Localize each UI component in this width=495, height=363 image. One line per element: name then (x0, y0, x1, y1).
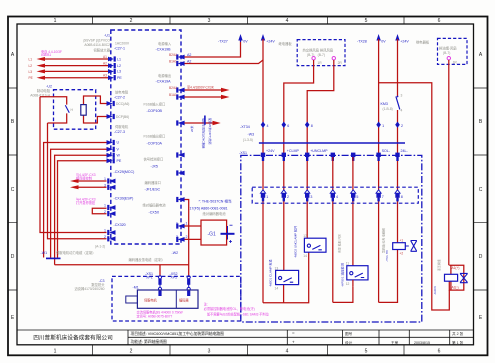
motor dashed enclosure (112, 276, 241, 321)
wire C27-3 W phase (55, 155, 107, 264)
svg-text:+1: +1 (400, 238, 404, 242)
wire C27-3 U phase (44, 143, 107, 258)
svg-text:伺服放大器: 伺服放大器 (94, 48, 111, 53)
svg-text:3: 3 (310, 195, 312, 199)
svg-text:继电器板: 继电器板 (279, 41, 293, 46)
svg-text:DCP(B6): DCP(B6) (116, 115, 129, 119)
svg-text:-CX5X: -CX5X (149, 210, 160, 214)
svg-text:B24U: B24U (169, 53, 178, 57)
connector JF1 pin (176, 197, 184, 202)
svg-text:-U2: -U2 (46, 85, 52, 89)
svg-text:-MS02 UNCLAMP 松开: -MS02 UNCLAMP 松开 (293, 226, 298, 258)
resistor R element (81, 105, 86, 116)
svg-text:热交换风扇 排风风扇: 热交换风扇 排风风扇 (303, 48, 334, 53)
svg-text:2: 2 (401, 124, 403, 128)
svg-text:20米: 20米 (189, 126, 194, 132)
svg-text:2: 2 (287, 195, 289, 199)
svg-text:17(F5) A860-0081-0081: 17(F5) A860-0081-0081 (190, 207, 228, 211)
fiber cable tick (204, 116, 206, 125)
cable W1 bundle tick (46, 257, 61, 259)
power source annotation (41, 49, 62, 57)
head C3 labels (74, 279, 105, 291)
ruler column numbers top (54, 18, 441, 24)
svg-text:4: 4 (336, 195, 338, 199)
svg-text:A1: A1 (103, 55, 107, 59)
svg-text:A06B-6114-B0C2: A06B-6114-B0C2 (84, 43, 110, 47)
svg-text:必须接控制器电池的OL、断电池(汗): 必须接控制器电池的OL、断电池(汗) (204, 306, 255, 311)
svg-text:信号检测接口: 信号检测接口 (144, 157, 164, 162)
svg-text:1R: 1R (317, 61, 322, 65)
wire phase tags A1 A2 A3 (103, 55, 107, 78)
switch KM3 (381, 39, 403, 243)
svg-text:5: 5 (365, 18, 368, 24)
svg-text:A2: A2 (103, 62, 107, 66)
svg-text:2: 2 (130, 349, 133, 355)
connector CX29 pins (104, 177, 116, 190)
wire MS01 bottom drop (283, 285, 285, 303)
wire relay2 drop to hydraulic valve (448, 60, 450, 265)
plug +24V (261, 149, 275, 161)
svg-text:-CX29(MCC): -CX29(MCC) (114, 170, 135, 174)
wire clamp return 4 (332, 157, 334, 302)
CX30 annotation (76, 196, 96, 204)
svg-text:5: 5 (356, 195, 358, 199)
svg-text:B24U: B24U (169, 86, 178, 90)
U2 resistor element wire (84, 96, 107, 123)
connector COP10B pin (176, 120, 184, 125)
svg-text:-TX27: -TX27 (218, 40, 228, 44)
wire CXA19B +24V riser join (185, 60, 264, 64)
svg-text:1: 1 (54, 18, 57, 24)
battery G1 cell symbol (221, 225, 235, 243)
wire CX29-1 outgoing (70, 179, 107, 183)
connector CX5X pins (176, 222, 188, 243)
svg-text:A: A (11, 52, 15, 58)
svg-text:放电电阻: 放电电阻 (115, 90, 129, 95)
switch MS02 unclamp detect (303, 234, 326, 258)
wire sol bottom U run (379, 250, 398, 303)
svg-text:H: H (71, 108, 74, 112)
svg-text:3: 3 (208, 349, 211, 355)
svg-text:-U1: -U1 (104, 34, 110, 38)
svg-text:PE: PE (29, 76, 33, 80)
node TX27 +24V up arrow (261, 34, 265, 42)
svg-text:A3: A3 (103, 74, 107, 78)
svg-text:DCC(A6): DCC(A6) (116, 102, 129, 106)
svg-text:迈克姆4170/240/260: 迈克姆4170/240/260 (74, 286, 104, 291)
svg-text:#38/B1: #38/B1 (41, 53, 51, 57)
ruler row letters left (11, 52, 15, 321)
wire UNCLMP relay drop (307, 60, 334, 238)
svg-text:打开急停按钮: 打开急停按钮 (76, 200, 96, 205)
svg-text:-M1: -M1 (133, 286, 139, 290)
ruler column numbers bottom (54, 349, 441, 355)
svg-text:绝对编码器电池: 绝对编码器电池 (143, 203, 167, 208)
svg-text:(B-7) (B-7): (B-7) (B-7) (307, 53, 325, 57)
numbered plug 2 (281, 190, 289, 202)
wire CX29-3 outgoing (70, 185, 107, 189)
wire clamp bottom U run (263, 252, 309, 303)
svg-text:编码器: 编码器 (179, 297, 189, 302)
svg-text:U: U (117, 141, 120, 145)
switch MS01 clamp detect (275, 266, 299, 290)
wire CLMP relay drop (284, 60, 314, 270)
svg-text:-COP10A: -COP10A (147, 141, 163, 145)
svg-text:(1-B-8): (1-B-8) (383, 107, 393, 111)
numbered plug 7 (376, 190, 384, 202)
relay board 2 pin (447, 57, 450, 60)
relay board 1 pin 2R (332, 57, 335, 60)
node TX28 0V up arrow (376, 34, 380, 42)
wire CX30 jumper loop (92, 208, 106, 214)
svg-text:L1: L1 (117, 57, 121, 61)
svg-text:-HP501 油压检测: -HP501 油压检测 (340, 263, 345, 287)
svg-text:7: 7 (382, 195, 384, 199)
svg-text:-C27-3: -C27-3 (114, 130, 125, 134)
title block (17, 330, 474, 345)
svg-text:-C27-2: -C27-2 (114, 95, 125, 99)
wire L2 (37, 64, 109, 68)
svg-text:-JX5: -JX5 (151, 164, 158, 168)
svg-text:-W2: -W2 (172, 251, 179, 255)
wire U2 left drop to CX320 pin1 (40, 97, 107, 233)
svg-text:3: 3 (208, 18, 211, 24)
svg-text:4: 4 (286, 349, 289, 355)
motor spec annotation (137, 310, 183, 319)
resistor U2 dashed enclosure (54, 90, 96, 130)
svg-text:电源输入: 电源输入 (158, 41, 172, 46)
svg-text:14: 14 (303, 254, 307, 258)
machine dash-dot enclosure (241, 155, 422, 322)
svg-text:5: 5 (365, 349, 368, 355)
svg-text:SOL-: SOL- (382, 149, 391, 153)
motor M1 divider (175, 290, 177, 308)
svg-text:编码器接口: 编码器接口 (145, 180, 161, 185)
svg-text:8: 8 (311, 124, 313, 128)
svg-text:B1A1: B1A1 (169, 60, 177, 64)
svg-text:L3: L3 (117, 70, 121, 74)
wire 0V rail with branch (379, 39, 450, 310)
motor M1 shaft (126, 296, 138, 303)
svg-text:-CX30(ESP): -CX30(ESP) (114, 196, 134, 200)
svg-text:-JF1/ESC: -JF1/ESC (145, 188, 161, 192)
wire CXA19A out 2 (185, 95, 230, 99)
numbered plug 4 (330, 190, 338, 202)
svg-text:-XT34: -XT34 (240, 125, 250, 129)
svg-text:W: W (117, 153, 121, 157)
svg-text:24L-: 24L- (401, 149, 409, 153)
svg-text:6: 6 (287, 124, 289, 128)
svg-text:-XS1: -XS1 (239, 151, 247, 155)
svg-text:2R: 2R (338, 61, 343, 65)
svg-text:(B-7): (B-7) (443, 51, 450, 55)
svg-text:1: 1 (104, 204, 106, 208)
svg-text:13: 13 (303, 234, 307, 238)
wire C27-3 V phase (51, 149, 107, 257)
svg-text:L2: L2 (117, 64, 121, 68)
svg-text:12: 12 (346, 282, 350, 286)
svg-text:C: C (11, 187, 15, 193)
svg-text:L1: L1 (29, 58, 33, 62)
svg-text:C: C (479, 187, 483, 193)
svg-text:-CXA19B: -CXA19B (156, 47, 172, 51)
svg-text:第 1 张: 第 1 张 (452, 340, 464, 345)
svg-text:图号: 图号 (345, 331, 353, 336)
node TX28 +24V up arrow (395, 34, 399, 42)
plug SOL- (376, 149, 390, 161)
wire 0V rail lower (378, 143, 380, 302)
svg-text:配套20米(OPT)光缆: 配套20米(OPT)光缆 (208, 118, 213, 145)
svg-text:+CLMP: +CLMP (287, 149, 300, 153)
plug +UNCLMP (305, 149, 328, 161)
svg-text:6: 6 (438, 18, 441, 24)
connector CXA19B pins (169, 53, 191, 66)
svg-text:+24V: +24V (400, 39, 409, 43)
svg-text:注:: 注: (204, 302, 208, 307)
svg-text:+2: +2 (400, 252, 404, 256)
svg-text:14: 14 (275, 286, 279, 290)
svg-text:1AC200V: 1AC200V (115, 42, 130, 46)
svg-text:-W3: -W3 (248, 133, 255, 137)
svg-text:+UNCLMP: +UNCLMP (310, 149, 328, 153)
plug 24L- (395, 149, 408, 161)
svg-text:-COP10B: -COP10B (147, 109, 163, 113)
U1 header labels (84, 34, 111, 53)
svg-text:+: + (292, 340, 295, 345)
svg-text:功能述: 第四轴接线图: 功能述: 第四轴接线图 (131, 339, 167, 344)
wire CX5X pin1 to G1 (185, 225, 202, 227)
relay board 2 dashed enclosure (438, 38, 468, 64)
wire U2 bottom drop to CX320 pin2 (48, 123, 107, 239)
svg-text:D: D (11, 254, 15, 260)
svg-text:A2(-): A2(-) (452, 286, 459, 290)
connector CXA19A pins (169, 86, 185, 100)
svg-text:-CX320: -CX320 (114, 223, 126, 227)
solenoid valve YV1 coil (393, 238, 409, 255)
svg-text:=: = (292, 331, 295, 336)
svg-text:绝对编码器电池: 绝对编码器电池 (203, 211, 227, 216)
wire COP10B fiber out (185, 121, 221, 125)
svg-text:+24V: +24V (266, 149, 275, 153)
op-amp U1 servo amplifier dashed enclosure (111, 30, 181, 244)
svg-text:*: THE-5037CN 相当: *: THE-5037CN 相当 (199, 198, 232, 203)
U2 thermal switch branch wire (40, 97, 67, 123)
connector C27-2 pins (107, 101, 130, 119)
wire W2 encoder run (185, 200, 189, 277)
wire +24V rail down (262, 39, 264, 303)
svg-text:1: 1 (186, 222, 188, 226)
svg-text:(A-1-2): (A-1-2) (95, 245, 105, 249)
wire W1 motor power run (55, 264, 189, 266)
svg-text:3: 3 (176, 235, 178, 239)
svg-text:2: 2 (130, 18, 133, 24)
svg-text:1: 1 (266, 195, 268, 199)
svg-text:2003/8/15: 2003/8/15 (414, 341, 430, 345)
svg-text:L3: L3 (29, 70, 33, 74)
svg-text:-KA03: -KA03 (433, 286, 437, 295)
relay board 1 pin 1R (312, 57, 315, 60)
wire L1 (37, 57, 109, 61)
svg-text:-CXA19A: -CXA19A (156, 80, 172, 84)
wire L3 (37, 69, 109, 73)
battery G1 enclosure (201, 220, 227, 245)
wire CX5X pin2 to G1 (185, 238, 202, 240)
svg-text:-W1: -W1 (41, 251, 48, 255)
svg-text:11: 11 (346, 262, 350, 266)
svg-text:PE: PE (117, 159, 122, 163)
svg-text:1: 1 (382, 124, 384, 128)
svg-text:夹紧 检测 开关: 夹紧 检测 开关 (337, 234, 342, 253)
svg-text:4: 4 (286, 18, 289, 24)
relay board 1 dashed enclosure (297, 40, 345, 66)
svg-text:KM3: KM3 (381, 102, 388, 106)
svg-text:XP2: XP2 (171, 275, 178, 279)
ruler row letters right (479, 52, 483, 321)
wire CXA19A out 1 (185, 88, 230, 92)
wire PE (37, 76, 109, 80)
U2 header labels (30, 85, 52, 98)
svg-text:B: B (11, 119, 15, 125)
svg-text:E: E (11, 315, 15, 321)
numbered plug 5 (351, 190, 359, 202)
svg-text:电缆在现场与CNC相连: 电缆在现场与CNC相连 (202, 118, 207, 149)
svg-text:E: E (479, 315, 483, 321)
svg-text:D: D (479, 254, 483, 260)
svg-text:伺服电机: 伺服电机 (115, 124, 129, 129)
svg-text:伺服电机动力电缆（定制）: 伺服电机动力电缆（定制） (56, 250, 96, 255)
terminal XT34 diamonds (261, 122, 403, 129)
svg-text:第四轴 松夹 电磁阀: 第四轴 松夹 电磁阀 (381, 228, 386, 253)
connector C27-3 pins (107, 140, 122, 163)
switch HP501 pressure detect (346, 262, 368, 286)
connector XS2 XP2 plug pair (187, 276, 190, 296)
svg-text:4: 4 (401, 109, 403, 113)
svg-text:+24V: +24V (266, 39, 275, 43)
solenoid valve YV1 symbol (411, 241, 417, 252)
svg-text:PE: PE (117, 76, 122, 80)
svg-text:如不需要与G2的关配线: -SB1 SAM3 不判位: 如不需要与G2的关配线: -SB1 SAM3 不判位 (207, 311, 270, 316)
plug 0V b (351, 153, 355, 161)
wire HP501 bottom drop (352, 280, 354, 286)
svg-text:FSSB输出接口: FSSB输出接口 (144, 133, 166, 138)
svg-text:至4.4/1890Y-CX3K: 至4.4/1890Y-CX3K (187, 86, 215, 90)
hydraulic valve KA03 symbol (460, 273, 468, 282)
U2 thermal switch contact (65, 105, 69, 113)
svg-text:A1(+): A1(+) (452, 266, 460, 270)
svg-text:0V: 0V (381, 39, 386, 43)
motor M1 body (137, 290, 198, 308)
svg-text:0V: 0V (243, 39, 248, 43)
terminal strip numbered dashed box (252, 187, 418, 203)
numbered plug 3 (305, 190, 313, 202)
clamp note annotation (204, 302, 270, 317)
svg-text:液压阀组: 液压阀组 (436, 259, 441, 271)
svg-text:1R: 1R (453, 61, 458, 65)
svg-text:继电器板: 继电器板 (416, 39, 430, 44)
svg-text:V: V (117, 147, 120, 151)
node TX27 0V up arrow (238, 34, 242, 42)
connector COP10A pin (176, 152, 184, 157)
svg-text:-TX28: -TX28 (357, 40, 367, 44)
svg-text:2: 2 (186, 235, 188, 239)
wire W1 drop to XS1 plug (159, 265, 161, 276)
svg-text:3: 3 (401, 94, 403, 98)
svg-text:(1-3-5): (1-3-5) (243, 138, 253, 142)
wire unclamp return 5 (352, 157, 354, 266)
svg-text:-YV1 HV: -YV1 HV (385, 249, 389, 262)
svg-text:A: A (479, 52, 483, 58)
hydraulic valve KA03 coil (445, 266, 460, 289)
plug 0V a (331, 153, 335, 161)
svg-text:FSSB输入接口: FSSB输入接口 (144, 101, 166, 106)
connector JX5 pin (176, 170, 184, 175)
svg-text:定货号: A06B-0075-B077: 定货号: A06B-0075-B077 (137, 313, 173, 318)
plug +CLMP (282, 149, 300, 161)
svg-text:L2: L2 (29, 64, 33, 68)
svg-text:排油烟·风扇: 排油烟·风扇 (439, 46, 457, 51)
svg-text:相连接控制: 相连接控制 (76, 176, 92, 181)
CX29 annotation (76, 172, 96, 180)
svg-text:-G1: -G1 (208, 231, 217, 237)
numbered plug 8 (395, 190, 403, 202)
connector CX30 pins (104, 204, 116, 217)
wire unclamp bottom U run (333, 286, 353, 302)
svg-text:王房: 王房 (391, 340, 399, 345)
bus 0V blue line (259, 142, 405, 144)
svg-text:项目描述: VMC600/VMC851加工中心加装第四轴电路: 项目描述: VMC600/VMC851加工中心加装第四轴电路图 (131, 331, 225, 336)
svg-text:1: 1 (54, 349, 57, 355)
svg-text:设计: 设计 (345, 340, 353, 345)
wire C27-3 PE (58, 161, 107, 258)
svg-text:伺服电机: 伺服电机 (144, 297, 158, 302)
wire CXA19B 0V to TX27 (185, 39, 241, 57)
svg-text:4: 4 (267, 124, 269, 128)
svg-text:电源输出: 电源输出 (158, 73, 171, 78)
svg-text:B1A1: B1A1 (169, 93, 177, 97)
svg-text:共 2 张: 共 2 张 (452, 331, 464, 336)
svg-text:-C27-1: -C27-1 (114, 47, 125, 51)
svg-text:B: B (479, 119, 483, 125)
svg-text:6: 6 (438, 349, 441, 355)
svg-text:13: 13 (275, 266, 279, 270)
svg-text:-MS01 CLAMP 夹紧: -MS01 CLAMP 夹紧 (268, 259, 273, 287)
connector XS1 XP1 plug pair (158, 276, 161, 296)
hydraulic valve KA03 loop (449, 265, 464, 290)
connector C27-1 pins L1 L2 L3 PE (108, 56, 122, 80)
svg-text:编码器反馈电缆（定制）: 编码器反馈电缆（定制） (129, 257, 165, 262)
numbered plug 1 (260, 190, 268, 202)
svg-text:四川普斯机床设备成套有限公司: 四川普斯机床设备成套有限公司 (33, 334, 113, 342)
svg-text:1: 1 (176, 222, 178, 226)
svg-text:8: 8 (401, 195, 403, 199)
svg-text:XP1: XP1 (146, 275, 153, 279)
connector CX320 pins (104, 229, 116, 242)
